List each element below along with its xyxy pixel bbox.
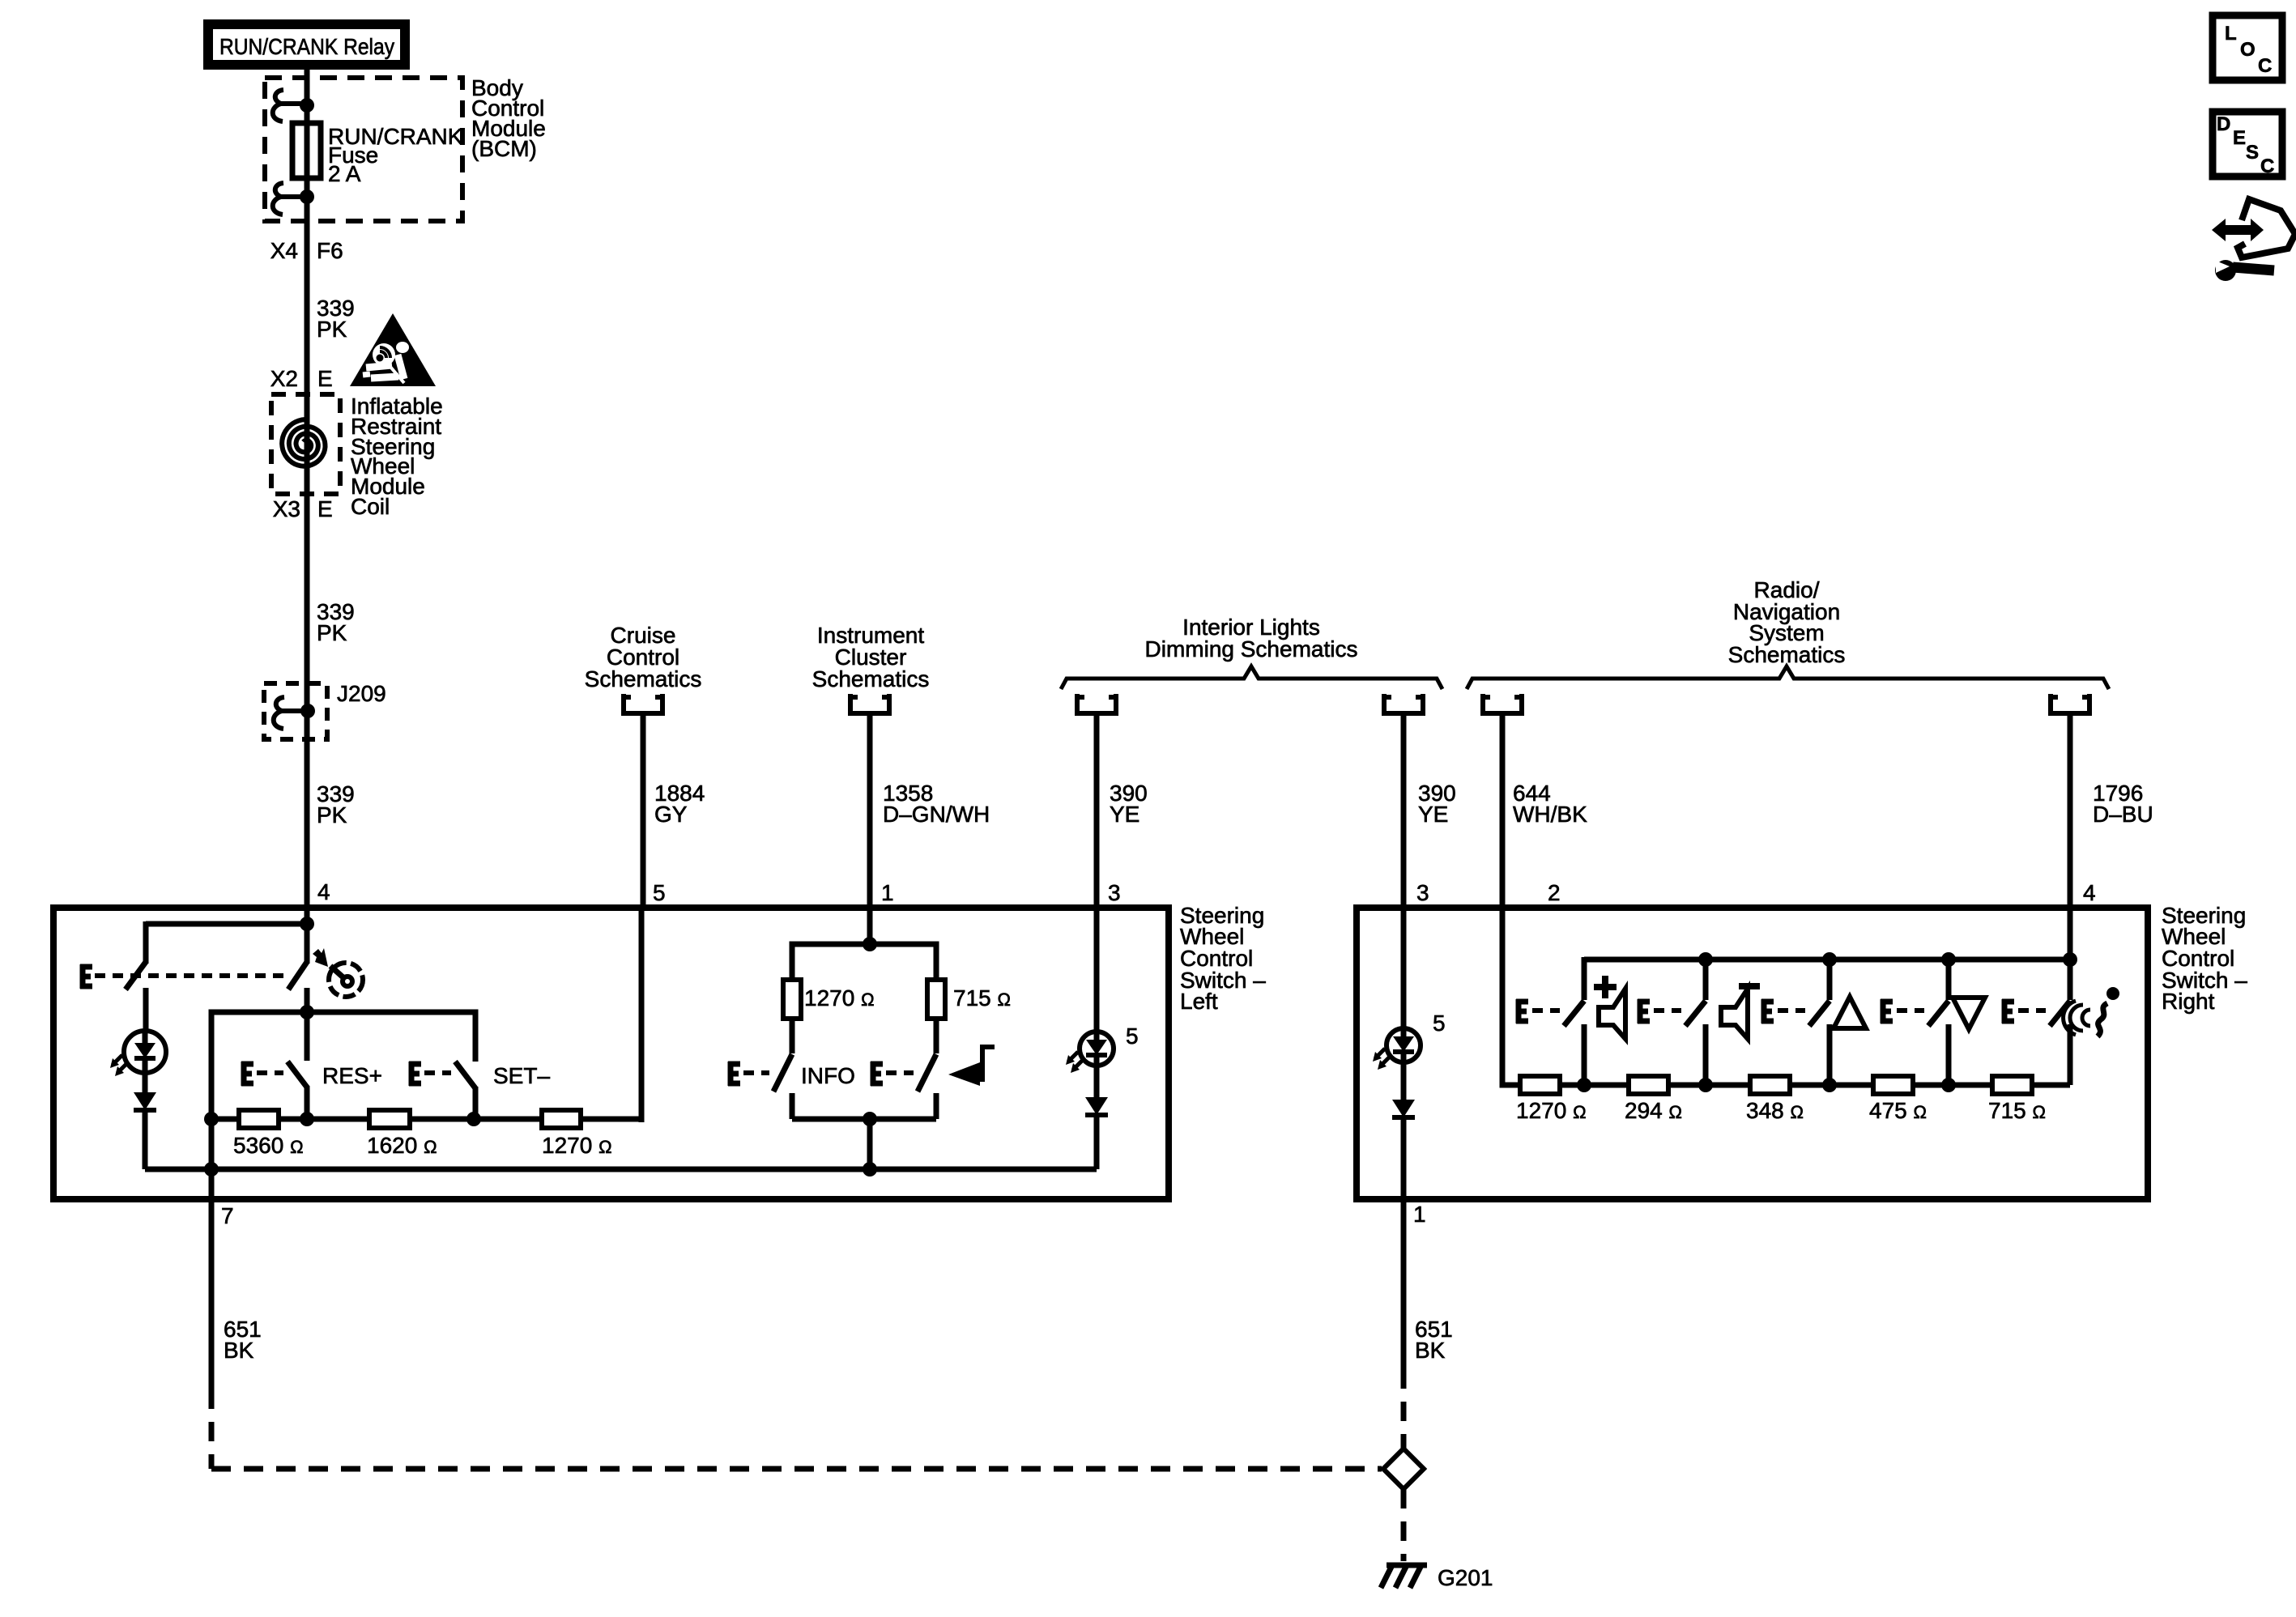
node (vol up bottom) [1577,1078,1591,1092]
connector terminal bottom (BCM) [281,194,307,199]
switch seek up lower stub [1827,1024,1833,1085]
node (SET- bottom) [466,1112,481,1126]
node (seek up rail tap) [1822,952,1837,967]
svg-text:294 Ω: 294 Ω [1625,1098,1682,1123]
diode (LED5) [1085,1097,1108,1115]
wire cruise switch to sub-circuit [305,988,310,1012]
svg-text:F6: F6 [317,238,343,263]
svg-text:Coil: Coil [351,494,390,519]
info sub-circuit bottom wire [792,1117,936,1122]
svg-text:GY: GY [654,802,688,827]
svg-text:E: E [317,366,333,391]
icon voice [2106,987,2119,1000]
RES+ switch blade [288,1062,308,1088]
mute linkage dashed [886,1070,914,1075]
node (voice rail tap) [2063,952,2077,967]
diagnostic arrow icon [2212,219,2264,241]
svg-text:Dimming Schematics: Dimming Schematics [1145,636,1358,662]
diode (right LED) [1392,1100,1415,1117]
svg-text:WH/BK: WH/BK [1513,802,1587,827]
svg-text:YE: YE [1418,802,1448,827]
wire pin3 to LED5 [1094,908,1100,1032]
svg-text:C: C [2260,155,2274,177]
svg-text:BK: BK [224,1338,254,1363]
actuate arrow to cruise icon [313,948,328,967]
node (rail info) [863,1162,877,1177]
sub-circuit top wire [211,1012,475,1119]
switch voice stub [2068,960,2073,1000]
node (row left) [204,1112,219,1126]
svg-text:O: O [2240,39,2256,61]
INFO linkage dashed [743,1070,769,1075]
wire branch to illumination switch [146,921,307,927]
svg-text:SET–: SET– [493,1063,550,1088]
switch vol down blade [1685,1001,1706,1026]
wire diode to bottom rail [143,1110,148,1169]
wire pin2 to resistor row [1502,908,1524,1085]
brace (radio/nav) [1467,666,2109,689]
svg-text:7: 7 [221,1203,234,1228]
node (RES+ bottom) [300,1112,314,1126]
svg-text:1270 Ω: 1270 Ω [1516,1098,1587,1123]
resistor 715 (mute) [927,980,945,1019]
switch vol down lower stub [1703,1024,1709,1085]
svg-text:4: 4 [2083,880,2096,905]
svg-text:PK: PK [317,317,347,342]
resistor 1620 [369,1110,410,1128]
node (pin1 tap) [863,937,877,951]
SET- switch blade [455,1062,475,1088]
svg-text:D–BU: D–BU [2093,802,2153,827]
icon vol- [1739,983,1760,989]
wire 1884 GY [641,713,646,911]
switch vol down stub [1703,960,1709,1000]
switch vol up stub [1582,957,1587,1000]
wire 644 WH/BK [1500,713,1506,911]
svg-text:5: 5 [1126,1023,1139,1049]
right switch box (Steering Wheel Control Switch - Right) [1357,908,2148,1199]
svg-text:D–GN/WH: D–GN/WH [883,802,990,827]
node (seek down rail tap) [1941,952,1956,967]
wire 339 PK (coil to J209) [305,494,310,683]
cruise speedometer icon [329,963,363,997]
dashed wire splice to ground [1401,1489,1407,1561]
svg-text:715 Ω: 715 Ω [953,985,1011,1011]
BCM dashed box [265,78,462,221]
svg-text:PK: PK [317,802,347,828]
svg-text:5360 Ω: 5360 Ω [233,1133,304,1158]
svg-text:S: S [2246,142,2259,164]
svg-text:BK: BK [1415,1338,1446,1363]
svg-text:RES+: RES+ [322,1063,382,1088]
wrench icon [2233,267,2274,270]
wire pin4 into box [305,908,310,964]
mute resistor stub [934,1019,939,1053]
mute switch blade [918,1054,936,1091]
switch seek down blade [1928,1001,1949,1026]
node (vol down bottom) [1698,1078,1713,1092]
svg-text:E: E [317,496,333,521]
connector terminal top (BCM) [281,101,307,106]
E symbol (cruise on/off common) [80,964,92,989]
backlight LED 5 (left box) [1080,1032,1114,1066]
INFO switch blade [773,1054,792,1091]
svg-text:1: 1 [1413,1202,1426,1227]
switch seek up blade [1809,1001,1830,1026]
svg-text:Schematics: Schematics [585,666,702,691]
mute lower stub [934,1093,939,1119]
splice J209 dashed box [264,683,327,739]
resistor 1270 (right box) [1520,1076,1560,1094]
off-page connector (cruise) [624,694,662,713]
switch seek down lower stub [1946,1024,1952,1085]
wire 390 YE (left) [1094,713,1100,911]
E symbol (SET-) [409,1062,421,1086]
bottom rail wire [145,1167,1097,1172]
svg-text:X4: X4 [270,238,298,263]
svg-text:3: 3 [1108,880,1121,905]
E symbol (seek up) [1761,999,1774,1023]
linkage dashed (seek down) [1897,1008,1924,1013]
svg-text:2: 2 [1548,880,1561,905]
node (fuse top) [300,98,314,113]
resistor 715 (right box) [1992,1076,2032,1094]
node (rail / pin7) [204,1162,219,1177]
resistor 475 (right box) [1873,1076,1913,1094]
svg-text:L: L [2225,23,2237,45]
wire 390 YE (right) [1401,713,1407,911]
connector terminal (J209) [282,709,308,713]
svg-text:5: 5 [653,880,666,905]
wire diode to rail (right end) [1094,1115,1100,1169]
coil dashed box (SRS coil) [271,394,340,494]
linkage dashed (seek up) [1778,1008,1805,1013]
svg-text:5: 5 [1433,1011,1446,1036]
linkage dashed (voice) [2018,1008,2046,1013]
svg-text:4: 4 [317,879,330,904]
top rail wire (right box) [1584,957,2070,963]
svg-text:PK: PK [317,620,347,645]
switch vol up blade [1564,1001,1584,1026]
svg-text:D: D [2217,113,2230,135]
splice diamond [1383,1449,1424,1489]
svg-text:1270 Ω: 1270 Ω [542,1133,612,1158]
E symbol (seek down) [1881,999,1893,1023]
node (vol down rail tap) [1698,952,1713,967]
svg-text:Left: Left [1180,989,1218,1014]
svg-text:(BCM): (BCM) [471,136,537,161]
brace (interior lights) [1061,666,1442,689]
svg-text:X2: X2 [270,366,298,391]
RES+ switch stub [305,1012,310,1061]
svg-text:2 A: 2 A [328,161,361,186]
dashed wire to splice [1401,1369,1407,1450]
switch vol up lower stub [1582,1024,1587,1085]
mute icon [948,1062,980,1086]
RES+ linkage dashed [257,1070,283,1075]
diode (illumination) [134,1092,156,1110]
svg-text:1: 1 [881,880,894,905]
right resistor row wire [1502,1083,2070,1088]
wire through coil [305,394,310,494]
resistor row wire [211,1117,641,1122]
resistor 348 (right box) [1750,1076,1790,1094]
svg-text:E: E [2233,127,2246,149]
wire diode to pin 1 [1401,1117,1407,1369]
svg-text:Schematics: Schematics [812,666,930,691]
E symbol (vol up) [1516,999,1528,1023]
wire pin 7 out of box [209,1169,215,1389]
switch linkage dashed [95,973,288,978]
svg-text:G201: G201 [1438,1565,1493,1590]
wire (BCM internal) [305,78,310,221]
wire relay to BCM [305,65,310,81]
resistor 1270 (cruise) [542,1110,581,1128]
svg-text:1270 Ω: 1270 Ω [804,985,875,1011]
wire 339 PK (BCM to coil) [305,221,310,394]
wire row-left to rail [209,1119,215,1169]
off-page connector (radio 1796) [2051,694,2089,713]
svg-text:J209: J209 [337,681,386,706]
E symbol (mute) [871,1062,883,1086]
svg-text:3: 3 [1416,880,1429,905]
SET- linkage dashed [424,1070,451,1075]
DESC reference box [2213,112,2282,177]
svg-text:YE: YE [1110,802,1139,827]
illumination LED (left box) [143,988,149,1031]
icon seek down [1953,998,1985,1029]
svg-text:X3: X3 [273,496,300,521]
wire 339 PK (J209 to left box pin 4) [305,683,310,911]
E symbol (vol down) [1638,999,1650,1023]
off-page connector (cluster) [850,694,889,713]
svg-text:1620 Ω: 1620 Ω [367,1133,437,1158]
clockspring coil spiral [282,419,325,466]
E symbol (RES+) [241,1062,253,1086]
switch voice blade [2050,1001,2070,1026]
resistor 5360 [239,1110,279,1128]
icon vol+ [1594,976,1617,998]
off-page connector (dimming right) [1384,694,1423,713]
wire LED5 to diode [1094,1066,1100,1097]
dashed ground wire (left) [209,1389,215,1469]
resistor 1270 (info) [783,980,801,1019]
svg-text:RUN/CRANK Relay: RUN/CRANK Relay [219,34,394,59]
svg-text:715 Ω: 715 Ω [1988,1098,2046,1123]
node (seek up bottom) [1822,1078,1837,1092]
wire pin4 through rail to voice switch [2068,908,2073,960]
RES+ lower stub [305,1087,310,1119]
airbag warning triangle [350,313,436,386]
linkage dashed (vol down) [1654,1008,1681,1013]
node (sub-circuit feed) [300,1005,314,1019]
wire 1796 D-BU [2068,713,2073,911]
ground G201 [1381,1565,1427,1588]
off-page connector (dimming left) [1077,694,1116,713]
cruise on/off switch blade [288,962,307,989]
E symbol (voice) [2002,999,2014,1023]
svg-text:475 Ω: 475 Ω [1869,1098,1927,1123]
node (info bottom) [863,1112,877,1126]
wire info bottom to rail [867,1119,873,1169]
svg-text:INFO: INFO [801,1063,855,1088]
E symbol (INFO) [728,1062,740,1086]
off-page connector (radio 644) [1483,694,1522,713]
wire LED to diode [143,1073,148,1092]
svg-text:348 Ω: 348 Ω [1746,1098,1804,1123]
node J209 [300,704,315,718]
wire to pin 5 [639,908,645,1122]
switch seek up stub [1827,960,1833,1000]
svg-text:C: C [2258,55,2272,77]
fuse F6 RUN/CRANK 2A [292,123,321,178]
relay label box RUN/CRANK Relay [203,19,410,70]
linkage dashed (vol up) [1532,1008,1560,1013]
backlight LED 5 (right box) [1387,1028,1421,1062]
illumination switch blade [126,962,146,989]
svg-text:Right: Right [2162,989,2215,1014]
icon seek up [1834,997,1866,1028]
info sub-circuit top wire [792,944,936,980]
node (fuse bottom) [300,189,314,204]
switch seek down stub [1946,960,1952,1000]
info resistor stub [790,1019,795,1053]
switch voice lower stub [2068,1024,2073,1085]
node (seek down bottom) [1941,1078,1956,1092]
left switch box (Steering Wheel Control Switch - Left) [53,908,1169,1199]
wire pin3 to LED (right box) [1401,908,1407,1028]
SET- lower stub [473,1087,479,1119]
wire LED to diode (right) [1401,1062,1407,1100]
INFO lower stub [790,1093,795,1119]
wire 1358 D-GN/WH [867,713,873,947]
LOC reference box [2213,15,2282,80]
node (pin4 branch) [300,917,314,931]
resistor 294 (right box) [1629,1076,1668,1094]
